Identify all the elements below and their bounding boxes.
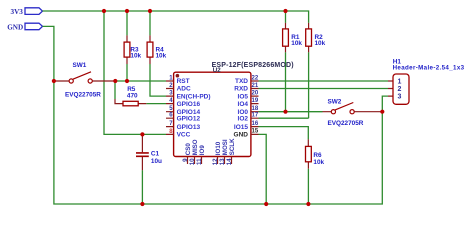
svg-text:IO2: IO2 xyxy=(238,115,249,122)
resistor R5 xyxy=(115,86,146,106)
svg-text:10k: 10k xyxy=(291,40,302,47)
svg-text:CS0: CS0 xyxy=(185,143,192,156)
svg-text:EN(CH-PD): EN(CH-PD) xyxy=(177,93,211,100)
chip left pin stubs 1-8 xyxy=(166,81,174,134)
node 3V3/VCC col xyxy=(102,9,106,13)
pin-1 marker xyxy=(176,74,180,78)
svg-text:10u: 10u xyxy=(151,158,162,165)
node 3V3/R3 xyxy=(125,9,129,13)
wire R5 to GPIO16 xyxy=(146,103,166,105)
wire R1 top xyxy=(285,11,287,23)
wire R3 bottom xyxy=(126,64,128,81)
resistor R1 xyxy=(283,23,303,52)
svg-text:GND: GND xyxy=(234,132,249,139)
net flag GND xyxy=(7,23,42,31)
svg-text:IO9: IO9 xyxy=(199,145,206,156)
svg-text:TXD: TXD xyxy=(235,78,248,85)
svg-text:GPIO13: GPIO13 xyxy=(177,124,201,131)
svg-text:GND: GND xyxy=(7,23,23,31)
svg-text:GPIO16: GPIO16 xyxy=(177,101,201,108)
node 3V3/R1 xyxy=(283,9,287,13)
svg-text:RST: RST xyxy=(177,78,190,85)
wire 3V3 to VCC column xyxy=(104,11,166,134)
chip bottom pin stubs 9-14 xyxy=(188,157,232,165)
op module ESP-12F U2 box xyxy=(174,62,294,157)
svg-text:3V3: 3V3 xyxy=(11,8,24,16)
node VCC/C1 xyxy=(140,132,144,136)
svg-text:14: 14 xyxy=(226,158,233,165)
node RST/R3 xyxy=(125,79,129,83)
wire RST row xyxy=(115,80,166,82)
svg-text:IO4: IO4 xyxy=(238,101,249,108)
connector H1 xyxy=(388,58,465,104)
svg-text:U2: U2 xyxy=(213,67,221,74)
svg-text:10k: 10k xyxy=(130,53,141,60)
svg-text:SCLK: SCLK xyxy=(229,138,236,155)
svg-text:IO5: IO5 xyxy=(238,93,249,100)
switch SW1 xyxy=(54,62,115,98)
node GND/pin15 xyxy=(264,202,268,206)
svg-text:3: 3 xyxy=(398,94,402,101)
resistor R4 xyxy=(147,35,167,64)
svg-text:15: 15 xyxy=(252,129,259,135)
wire R4 top xyxy=(149,11,151,35)
svg-text:16: 16 xyxy=(252,121,259,127)
svg-text:10k: 10k xyxy=(313,159,324,166)
svg-text:EVQ22705R: EVQ22705R xyxy=(328,120,364,127)
svg-text:21: 21 xyxy=(252,83,259,89)
wire R3 top xyxy=(126,11,128,35)
chip right pin stubs 22-15 xyxy=(251,81,259,134)
wire GND pin15 xyxy=(259,134,267,204)
wire IO15 to R6 xyxy=(259,127,309,140)
svg-text:470: 470 xyxy=(127,92,138,99)
wire R1 bottom to IO0 xyxy=(285,52,287,111)
wire TXD to header pin1 xyxy=(259,80,389,82)
node GND/C1 xyxy=(140,202,144,206)
svg-text:12: 12 xyxy=(212,158,219,165)
wire IO2 row xyxy=(259,117,309,119)
svg-text:GPIO12: GPIO12 xyxy=(177,115,201,122)
svg-text:SW2: SW2 xyxy=(328,99,342,106)
wire 3V3 top rail xyxy=(43,11,309,23)
svg-text:10k: 10k xyxy=(156,53,167,60)
node IO0/R1 xyxy=(283,110,287,114)
wire R2 bottom to IO2 xyxy=(308,52,310,118)
capacitor C1 xyxy=(136,134,162,170)
node 3V3/R4 xyxy=(148,9,152,13)
svg-text:17: 17 xyxy=(252,113,259,119)
svg-text:C1: C1 xyxy=(151,150,160,157)
svg-text:SW1: SW1 xyxy=(73,62,87,69)
svg-text:MISO: MISO xyxy=(192,139,199,155)
svg-text:IO10: IO10 xyxy=(215,141,222,155)
svg-text:RXD: RXD xyxy=(234,86,248,93)
svg-text:18: 18 xyxy=(252,106,259,112)
wire GND net xyxy=(43,26,389,204)
svg-text:EVQ22705R: EVQ22705R xyxy=(65,91,101,98)
svg-text:9: 9 xyxy=(182,158,189,162)
svg-text:19: 19 xyxy=(252,98,259,104)
svg-text:22: 22 xyxy=(252,75,259,81)
node GND/R6 xyxy=(306,202,310,206)
svg-text:10k: 10k xyxy=(315,40,326,47)
wire RXD to header pin2 xyxy=(259,88,389,90)
svg-text:13: 13 xyxy=(219,158,226,165)
node RST/R5 xyxy=(113,79,117,83)
svg-text:2: 2 xyxy=(398,86,402,93)
node SW2/GND col xyxy=(380,110,384,114)
svg-text:ADC: ADC xyxy=(177,86,191,93)
svg-text:Header-Male-2.54_1x3: Header-Male-2.54_1x3 xyxy=(393,64,465,71)
resistor R3 xyxy=(124,35,141,64)
wire C1 bottom xyxy=(141,170,143,204)
node GND/SW1 xyxy=(52,79,56,83)
resistor R6 xyxy=(306,139,325,168)
svg-text:IO15: IO15 xyxy=(234,124,248,131)
svg-text:11: 11 xyxy=(196,158,203,165)
svg-text:ESP-12F(ESP8266MOD): ESP-12F(ESP8266MOD) xyxy=(212,62,294,69)
wire R4 bottom to EN xyxy=(150,64,166,96)
net flag 3V3 xyxy=(11,8,43,16)
wire R5 branch xyxy=(114,81,116,99)
svg-text:1: 1 xyxy=(398,79,402,86)
svg-text:VCC: VCC xyxy=(177,132,191,139)
svg-text:20: 20 xyxy=(252,90,259,96)
wire R6 bottom xyxy=(307,169,309,204)
svg-text:10: 10 xyxy=(189,158,196,165)
resistor R2 xyxy=(306,23,326,52)
svg-text:MOSI: MOSI xyxy=(222,139,229,155)
wire IO0 to SW2 xyxy=(259,111,323,113)
switch SW2 xyxy=(323,99,383,128)
